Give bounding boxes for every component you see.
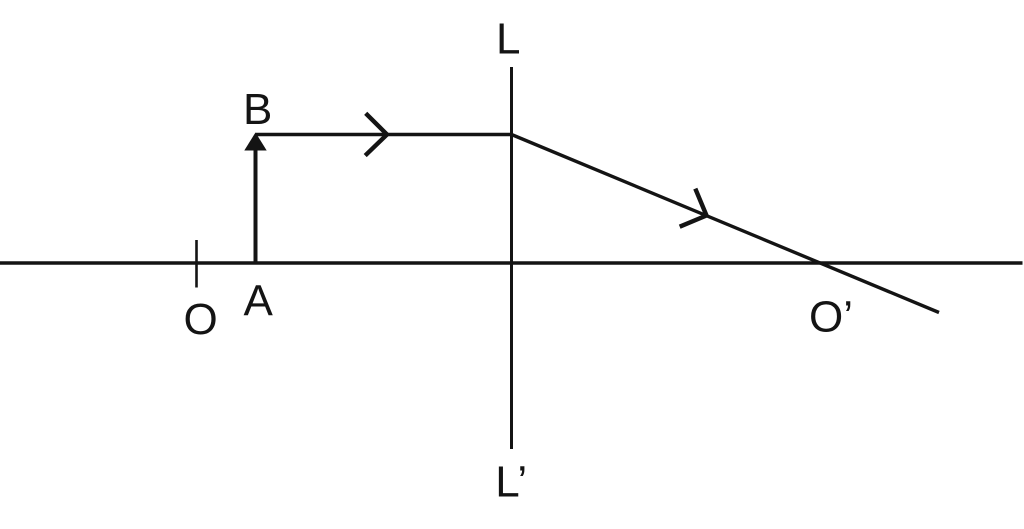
svg-text:O: O [184, 295, 218, 344]
principal axis [0, 261, 1023, 265]
svg-text:B: B [243, 85, 272, 134]
refracted ray through O' [512, 135, 940, 313]
svg-text:L’: L’ [495, 457, 527, 506]
incident ray B to lens [256, 133, 513, 136]
object arrowhead at B [244, 133, 266, 151]
svg-text:L: L [496, 14, 520, 63]
svg-text:A: A [244, 276, 274, 325]
svg-text:O’: O’ [809, 293, 853, 342]
chevron on incident ray [365, 113, 387, 155]
lens line LL' [510, 67, 513, 449]
chevron on refracted ray [680, 189, 707, 227]
tick mark at O [195, 240, 198, 288]
object arrow AB shaft [254, 147, 258, 263]
